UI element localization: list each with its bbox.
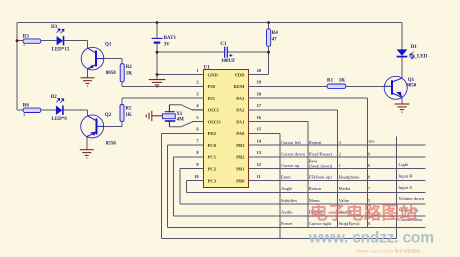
resistor R2 [120, 64, 132, 82]
wire battery column [156, 23, 158, 39]
wire R5 top to IC pin3 [121, 98, 123, 105]
resistor R3 [23, 35, 41, 48]
svg-text:Play(/Pause): Play(/Pause) [309, 152, 333, 157]
svg-text:Repeat: Repeat [309, 140, 322, 145]
resistor R1 [327, 79, 346, 89]
svg-text:IR_LED: IR_LED [409, 55, 428, 60]
wire pin9 loop row [180, 168, 204, 170]
svg-text:FF(Seek up): FF(Seek up) [309, 175, 332, 180]
ground crystal sideways [146, 111, 162, 121]
svg-text:PB0: PB0 [236, 178, 245, 183]
transistor Q1 8050 [81, 43, 116, 77]
wire R2 bottom to IC pin2 [121, 82, 123, 86]
node R3 tap [16, 39, 19, 42]
ground Q2 emitter [80, 150, 94, 158]
wire pin5 OSCO dogleg [169, 122, 203, 127]
svg-text:R4: R4 [272, 31, 279, 36]
svg-text:R2: R2 [126, 65, 133, 70]
op IC U1 body [204, 65, 249, 187]
ground Q3 emitter [395, 104, 410, 112]
svg-text:8550: 8550 [106, 142, 117, 147]
svg-text:Cursor up: Cursor up [281, 163, 300, 168]
LED D1 IR_LED [397, 45, 428, 60]
svg-text:D3: D3 [51, 25, 58, 30]
svg-text:PB2: PB2 [236, 155, 245, 160]
ground battery [149, 80, 166, 88]
svg-text:R6: R6 [23, 103, 30, 108]
resistor R4 [267, 29, 279, 47]
svg-text:47: 47 [272, 37, 278, 42]
svg-text:Subtitles: Subtitles [281, 198, 297, 203]
svg-text:PA0: PA0 [236, 131, 245, 136]
svg-text:PA3: PA3 [236, 96, 245, 101]
wire REM pin19 to R1 to Q3 base [248, 85, 327, 87]
svg-text:PA1: PA1 [236, 119, 245, 124]
svg-text:11: 11 [257, 174, 261, 179]
IC pin stubs [192, 75, 261, 122]
transistor Q2 8550 [81, 113, 117, 147]
LED D2 [51, 95, 68, 122]
svg-text:Cursor left: Cursor left [281, 140, 301, 145]
wire pin12 row [248, 168, 425, 170]
svg-text:8050: 8050 [106, 71, 117, 76]
svg-text:PB1: PB1 [236, 167, 245, 172]
svg-text:Light: Light [398, 162, 409, 167]
wire pin14 row [248, 144, 425, 146]
svg-text:Volume down: Volume down [398, 196, 424, 201]
wire pin18 PA3 column [248, 97, 367, 99]
svg-text:1: 1 [23, 42, 25, 47]
svg-text:VDD: VDD [234, 72, 245, 77]
svg-text:OSCO: OSCO [208, 119, 221, 124]
svg-text:电子电路图站: 电子电路图站 [310, 203, 418, 223]
ground Q1 emitter [81, 78, 95, 86]
wire Q1 base to R2 [104, 58, 122, 60]
resistor R5 [120, 105, 132, 122]
wire pin10 loop row [186, 180, 203, 182]
svg-text:Audio: Audio [281, 210, 293, 215]
crystal X1 4M [162, 105, 184, 127]
svg-text:PC2: PC2 [208, 167, 217, 172]
node C1 left [156, 51, 159, 54]
wire R4 column / VDD pin20 [268, 23, 270, 29]
svg-text:PA2: PA2 [236, 108, 245, 113]
wire pin7 loop row [168, 144, 204, 146]
node GND junction [156, 73, 159, 76]
svg-text:10+: 10+ [368, 139, 376, 144]
node R4 top [267, 21, 270, 24]
svg-text:Q2: Q2 [105, 113, 112, 118]
svg-text:8050: 8050 [406, 84, 417, 89]
wire IC pin1 GND to battery junction [157, 74, 204, 76]
svg-text:Q1: Q1 [408, 78, 415, 83]
wire pin16 PA1 column [248, 121, 308, 123]
wire pin8 loop row [173, 156, 203, 158]
svg-text:P20: P20 [208, 84, 216, 89]
svg-text:Input B: Input B [398, 173, 412, 178]
svg-text:R5: R5 [125, 107, 132, 112]
battery BAT1 [152, 36, 177, 48]
svg-text:(Seek down): (Seek down) [309, 164, 333, 169]
svg-text:PD2: PD2 [208, 131, 217, 136]
svg-text:Q1: Q1 [105, 43, 112, 48]
transistor Q3 8050 [384, 76, 417, 99]
svg-text:WWW.cndzz.COM 电子电路图站: WWW.cndzz.COM 电子电路图站 [356, 248, 420, 254]
wire pin17 PA2 column [248, 109, 337, 111]
svg-text:R1: R1 [327, 79, 334, 84]
wire D1 branch collector [401, 23, 403, 50]
node C1 right [267, 51, 270, 54]
wire Q3 emitter to ground [401, 97, 403, 103]
svg-text:1K: 1K [125, 113, 131, 118]
IC pin names [208, 72, 245, 183]
svg-text:Angle: Angle [281, 186, 292, 191]
wire top power rail [17, 23, 426, 239]
key matrix table text [281, 139, 425, 226]
svg-text:PC3: PC3 [208, 178, 217, 183]
svg-text:2: 2 [196, 80, 198, 85]
wire pin11 row [248, 180, 425, 182]
wire C1 branch [157, 51, 224, 53]
svg-text:Cursor down: Cursor down [281, 152, 306, 157]
LED D3 [51, 25, 70, 53]
wire table column 5 [396, 137, 398, 239]
svg-text:Power: Power [281, 221, 293, 226]
svg-text:12: 12 [257, 162, 261, 167]
svg-text:C1: C1 [220, 42, 227, 47]
capacitor C1 [220, 42, 235, 64]
svg-text:PC0: PC0 [208, 143, 217, 148]
svg-text:OSCI: OSCI [208, 108, 219, 113]
svg-text:Enter: Enter [281, 175, 291, 180]
svg-text:4M: 4M [177, 117, 185, 122]
svg-text:1K: 1K [126, 72, 133, 77]
wire R6 branch [17, 109, 23, 111]
svg-text:1K: 1K [339, 79, 346, 84]
svg-text:LED*15: LED*15 [52, 48, 70, 53]
svg-text:REM: REM [234, 84, 245, 89]
wire pin15 PA0 table left border [248, 132, 280, 134]
svg-text:D1: D1 [411, 45, 418, 50]
wire left vertical bus [16, 23, 18, 111]
svg-text:LED*9: LED*9 [52, 117, 68, 122]
svg-text:X1: X1 [176, 112, 183, 117]
svg-text:Return: Return [309, 186, 322, 191]
svg-text:R3: R3 [23, 35, 30, 40]
svg-text:BAT1: BAT1 [164, 36, 177, 41]
svg-text:100UF: 100UF [221, 59, 235, 64]
svg-text:Input A: Input A [398, 185, 413, 190]
junction dots [16, 21, 270, 76]
wire pin4 OSCI dogleg [169, 105, 203, 110]
wire pin6 loop bottom row [162, 132, 204, 134]
svg-text:D2: D2 [51, 95, 58, 100]
svg-text:1: 1 [196, 68, 198, 73]
wire Q2 base to R5 [104, 125, 122, 127]
svg-text:PC1: PC1 [208, 155, 217, 160]
wire R3 branch [17, 40, 23, 42]
IC pin numbers right [257, 68, 262, 179]
svg-text:Media: Media [339, 186, 351, 191]
svg-text:www. cndzz. com: www. cndzz. com [308, 230, 434, 247]
svg-text:Headphone: Headphone [339, 175, 360, 180]
IC pin numbers left [194, 68, 199, 179]
resistor R6 [23, 103, 41, 116]
svg-text:P21: P21 [208, 96, 216, 101]
wire Q2 emitter to ground [86, 137, 88, 150]
svg-text:4: 4 [23, 112, 25, 117]
svg-text:3V: 3V [164, 43, 171, 48]
node battery top [156, 21, 159, 24]
svg-text:PB3: PB3 [236, 143, 245, 148]
wire pin13 row [248, 156, 425, 158]
svg-text:GND: GND [208, 72, 219, 77]
svg-text:U1: U1 [204, 65, 211, 70]
wire Q1 emitter to ground [87, 69, 89, 78]
